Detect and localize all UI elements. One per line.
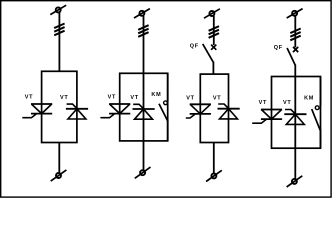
three-phase marks C3 [209, 26, 219, 38]
module box C3 [200, 74, 228, 142]
wire C1 out [58, 143, 60, 174]
three-phase marks C1 [54, 24, 64, 36]
circuit 2: thyristor module with KM bypass [100, 9, 167, 179]
terminal T3 top [204, 9, 220, 18]
svg-text:VT: VT [130, 95, 138, 101]
circuit breaker QF C4 [287, 47, 298, 65]
wire C2 feed-through [143, 16, 145, 170]
svg-text:VT: VT [283, 100, 291, 106]
terminal T4 bottom [287, 176, 303, 187]
wire C4 feed-through [294, 65, 296, 179]
thyristor VT C4-mid [284, 110, 306, 125]
three-phase marks C2 [138, 25, 148, 37]
terminal T1 bottom [51, 170, 67, 181]
wire C3 out [213, 143, 215, 174]
terminal T2 bottom [135, 167, 151, 178]
svg-text:KM: KM [151, 92, 161, 98]
terminal T3 bottom [206, 170, 222, 181]
svg-text:QF: QF [190, 43, 199, 49]
wire C3 feed upper [213, 16, 215, 45]
thyristor VT C4-left [252, 110, 282, 124]
terminal T1 top [50, 5, 66, 14]
thyristor VT C3-left [186, 104, 211, 118]
svg-text:VT: VT [186, 95, 194, 101]
module box C4 [272, 77, 321, 149]
svg-text:VT: VT [108, 95, 116, 101]
thyristor VT C1-right [66, 104, 88, 119]
circuit breaker QF C3 [203, 44, 217, 63]
thyristor VT C2-left [100, 104, 130, 118]
terminal T4 top [287, 9, 303, 18]
three-phase marks C4 [290, 29, 300, 41]
contactor contact KM C2 [159, 73, 168, 141]
svg-text:QF: QF [274, 45, 283, 51]
svg-text:VT: VT [60, 95, 68, 101]
module box C1 [42, 71, 77, 142]
wire C1 feed [58, 12, 60, 71]
wire C3 feed lower [212, 62, 214, 75]
contactor contact KM C4 [312, 77, 321, 149]
thyristor VT C2-mid [133, 104, 155, 119]
svg-text:VT: VT [25, 95, 33, 101]
circuit 1: thyristor module, no bypass [22, 5, 88, 181]
svg-text:VT: VT [259, 100, 267, 106]
circuit 4: QF breaker + thyristor module with KM bypass [252, 9, 320, 187]
wire C4 feed upper [294, 16, 296, 48]
module box C2 [120, 73, 168, 141]
terminal T2 top [134, 9, 150, 18]
thyristor VT C1-left [22, 104, 52, 118]
thyristor VT C3-right [218, 104, 240, 119]
svg-text:KM: KM [304, 95, 314, 101]
svg-text:VT: VT [213, 95, 221, 101]
circuit 3: QF breaker + thyristor module, no bypass [186, 9, 240, 182]
